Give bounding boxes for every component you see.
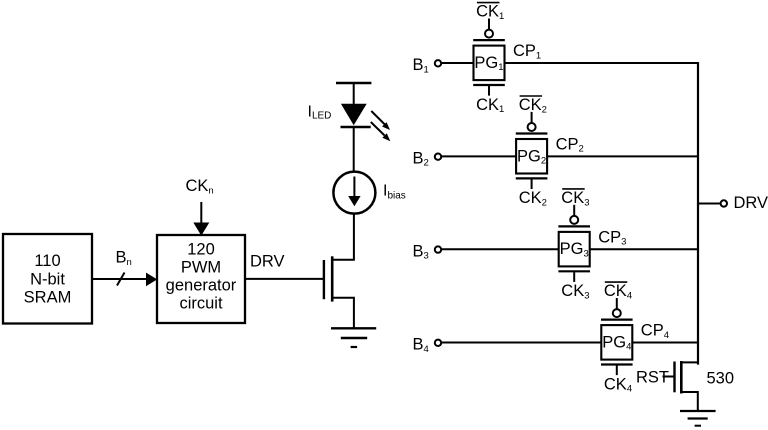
svg-text:RST: RST xyxy=(636,368,669,386)
wire CP2 to bus xyxy=(547,155,698,157)
wire DRV to gate xyxy=(245,278,323,280)
PG3 inverting bubble xyxy=(570,216,578,224)
wire current source to drain xyxy=(332,214,354,260)
PG2 top plate xyxy=(516,132,548,134)
svg-text:120: 120 xyxy=(187,241,215,259)
wire CP1 to bus xyxy=(505,62,699,64)
block 110 N-bit SRAM xyxy=(3,234,92,324)
wire CK2 to bottom plate xyxy=(531,179,533,189)
bus slash xyxy=(117,273,125,286)
wire B2 to PG2 xyxy=(441,155,516,157)
power rail xyxy=(336,82,371,85)
transistor M1 gate bar xyxy=(323,260,325,299)
PG1 inverting bubble xyxy=(485,30,493,38)
svg-text:SRAM: SRAM xyxy=(24,288,72,306)
wire B3 to PG3 xyxy=(441,248,559,250)
transistor 530 channel bar xyxy=(680,361,683,394)
wire DRV terminal stub xyxy=(698,203,721,205)
pass gate PG4 box xyxy=(601,325,632,360)
label CKbar3 xyxy=(561,189,589,208)
LED light arrow 2 xyxy=(371,122,391,141)
current source Ibias circle xyxy=(333,172,375,214)
arrowhead CKn into 120 xyxy=(193,223,209,236)
wire rail to LED xyxy=(353,83,355,105)
svg-text:DRV: DRV xyxy=(250,253,285,271)
label CKbar1 xyxy=(476,3,504,22)
svg-text:530: 530 xyxy=(707,370,735,388)
transistor M1 channel bar xyxy=(331,256,334,301)
transistor 530 source xyxy=(681,392,698,411)
wire CK1 to bottom plate xyxy=(488,86,490,96)
label CKbar2 xyxy=(519,96,547,115)
transistor 530 drain xyxy=(681,361,698,363)
wire CKbar4 to bubble xyxy=(616,298,618,309)
terminal B1 xyxy=(413,56,442,75)
wire CP3 to bus xyxy=(590,248,698,250)
svg-text:N-bit: N-bit xyxy=(30,270,65,288)
transistor 530 gate bar xyxy=(673,362,675,393)
wire RST to gate xyxy=(663,376,675,378)
svg-text:110: 110 xyxy=(34,252,60,270)
PG3 top plate xyxy=(558,225,590,227)
arrowhead into 120 xyxy=(146,273,157,287)
wire CKbar3 to bubble xyxy=(573,205,575,216)
terminal DRV xyxy=(721,200,727,206)
PG1 bottom plate xyxy=(473,84,505,86)
transistor M1 source xyxy=(332,298,354,328)
wire CK4 to bottom plate xyxy=(616,366,618,376)
LED light arrow 1 xyxy=(371,111,390,130)
wire CK3 to bottom plate xyxy=(573,272,575,282)
svg-text:circuit: circuit xyxy=(179,295,223,313)
pass gate PG2 box xyxy=(516,139,547,174)
PG1 top plate xyxy=(473,39,505,41)
wire CKbar2 to bubble xyxy=(531,112,533,123)
pass gate PG1 box xyxy=(474,46,505,81)
ground (530 source) xyxy=(680,411,716,426)
terminal B3 xyxy=(413,242,442,261)
pass gate PG3 box xyxy=(559,232,590,267)
block 120 PWM generator circuit xyxy=(157,235,245,323)
PG2 bottom plate xyxy=(516,177,548,179)
terminal B4 xyxy=(413,336,442,355)
svg-text:PWM: PWM xyxy=(181,259,221,277)
wire CP4 to bus xyxy=(632,342,698,344)
label CKbar4 xyxy=(604,282,632,301)
wire B1 to PG1 xyxy=(441,62,473,64)
LED D1 anode triangle xyxy=(341,104,367,126)
wire Bn bus xyxy=(92,278,147,280)
ground (M1 source) xyxy=(331,328,376,347)
terminal B2 xyxy=(413,149,442,168)
PG2 inverting bubble xyxy=(528,123,536,131)
wire B4 to PG4 xyxy=(441,342,601,344)
PG4 bottom plate xyxy=(601,363,633,365)
PG4 inverting bubble xyxy=(613,309,621,317)
current source arrow xyxy=(348,177,360,207)
PG3 bottom plate xyxy=(558,270,590,272)
LED cathode bar xyxy=(341,126,371,129)
bus DRV vertical xyxy=(697,62,699,365)
svg-text:generator: generator xyxy=(166,277,237,295)
wire CKbar1 to bubble xyxy=(488,19,490,30)
wire CKn xyxy=(200,202,202,224)
svg-text:DRV: DRV xyxy=(734,194,768,212)
PG4 top plate xyxy=(601,319,633,321)
wire LED to current source xyxy=(353,127,355,172)
